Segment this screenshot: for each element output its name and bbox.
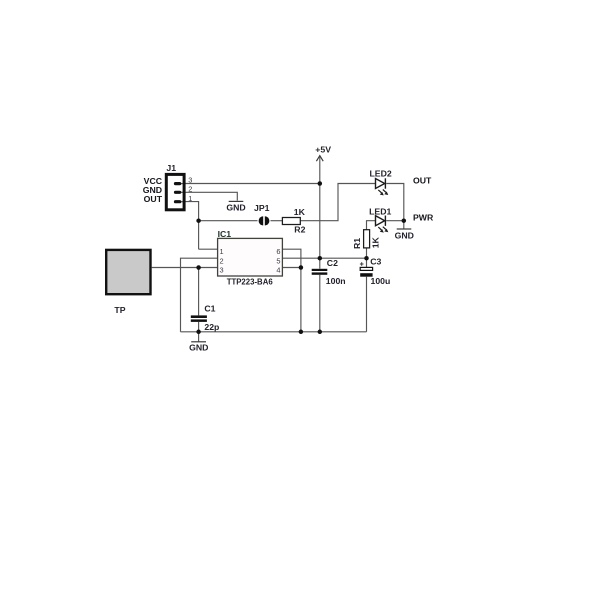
capacitor C2 bbox=[312, 269, 328, 275]
touch pad TP bbox=[106, 250, 150, 294]
IC IC1 TTP223-BA6 bbox=[218, 238, 283, 276]
junction node: OUT column / JP1 row bbox=[196, 218, 201, 223]
wire: IC pin5 row to C3 node bbox=[282, 257, 366, 259]
wire VCC: J1 pin3 to +5V rail bbox=[181, 183, 320, 185]
ground symbol at PWR node bbox=[403, 221, 405, 229]
wire: C3 bottom to ground rail bbox=[366, 277, 368, 332]
wire: J1 pin1 down to OUT node bbox=[181, 202, 199, 250]
wire: +5V rail below C2 to ground rail bbox=[319, 275, 321, 332]
diode LED2 bbox=[376, 178, 389, 195]
wire: node F to C3 top bbox=[366, 258, 368, 267]
wire: JP1 to R2 bbox=[271, 220, 283, 222]
junction node: TP / pin3 bbox=[196, 265, 201, 270]
svg-text:GND: GND bbox=[226, 203, 245, 213]
wire: LED1 cathode to PWR node bbox=[386, 220, 404, 222]
svg-text:LED2: LED2 bbox=[370, 168, 392, 178]
svg-text:TTP223-BA6: TTP223-BA6 bbox=[227, 276, 273, 286]
junction node: C1 / rail bbox=[196, 330, 201, 335]
capacitor C3 (polarized) bbox=[360, 267, 372, 270]
wire: R2 to LED2 anode bbox=[300, 184, 375, 221]
resistor R2 bbox=[282, 218, 300, 225]
wire: TP node down to C1 bbox=[198, 268, 200, 316]
svg-text:22p: 22p bbox=[204, 322, 219, 332]
svg-text:3: 3 bbox=[220, 266, 224, 275]
wire: LED1 anode to R1 top bbox=[367, 221, 376, 230]
svg-text:OUT: OUT bbox=[144, 194, 163, 204]
svg-text:J1: J1 bbox=[166, 163, 176, 173]
svg-text:IC1: IC1 bbox=[218, 229, 232, 239]
wire: TP to IC pin3 bbox=[152, 267, 218, 269]
junction node: pin6 drop / rail bbox=[299, 330, 304, 335]
svg-text:TP: TP bbox=[114, 305, 125, 315]
svg-text:1K: 1K bbox=[371, 236, 381, 248]
wire: IC pin6 over and down bbox=[282, 249, 301, 332]
svg-text:5: 5 bbox=[276, 256, 280, 265]
svg-text:3: 3 bbox=[188, 175, 192, 184]
svg-text:2: 2 bbox=[220, 256, 224, 265]
svg-text:JP1: JP1 bbox=[254, 203, 270, 213]
svg-text:OUT: OUT bbox=[413, 175, 432, 185]
svg-text:C3: C3 bbox=[370, 257, 381, 267]
svg-text:GND: GND bbox=[395, 231, 414, 241]
svg-text:GND: GND bbox=[189, 343, 208, 353]
wire: OUT column to IC pin1 bbox=[199, 248, 218, 250]
svg-text:R2: R2 bbox=[294, 224, 305, 234]
plus mark for C3 bbox=[360, 262, 364, 266]
junction node: +5V / VCC bbox=[318, 181, 323, 186]
wire: IC pin4 stub bbox=[282, 267, 301, 269]
wire: bottom ground rail bbox=[181, 331, 367, 333]
svg-text:1: 1 bbox=[220, 247, 224, 256]
svg-text:C1: C1 bbox=[204, 304, 215, 314]
svg-text:2: 2 bbox=[188, 185, 192, 194]
junction node: +5V col / rail bbox=[318, 330, 323, 335]
svg-text:PWR: PWR bbox=[413, 213, 434, 223]
ground symbol at bottom rail bbox=[198, 332, 200, 342]
power +5V symbol bbox=[316, 156, 323, 162]
wire: LED2 cathode to PWR node bbox=[386, 184, 404, 221]
wire: IC pin2 left and down to rail bbox=[181, 258, 218, 332]
svg-text:100n: 100n bbox=[326, 276, 346, 286]
svg-text:6: 6 bbox=[276, 247, 280, 256]
wire: J1 pin2 to GND drop bbox=[181, 192, 237, 200]
junction node: pin4 / pin6 bbox=[299, 265, 304, 270]
resistor R1 bbox=[364, 230, 370, 248]
svg-text:+5V: +5V bbox=[315, 144, 331, 154]
wire: C1 bottom to rail bbox=[198, 322, 200, 332]
jumper JP1 bbox=[259, 216, 270, 225]
svg-text:4: 4 bbox=[276, 266, 280, 275]
junction node: +5V / pin5 row bbox=[318, 256, 323, 261]
svg-text:R1: R1 bbox=[352, 238, 362, 249]
svg-text:1: 1 bbox=[188, 194, 192, 203]
connector J1 bbox=[166, 174, 185, 209]
junction node: PWR bbox=[402, 218, 407, 223]
ground symbol at J1 pin2 bbox=[229, 200, 244, 202]
svg-text:1K: 1K bbox=[294, 207, 306, 217]
capacitor C1 bbox=[191, 315, 207, 322]
svg-text:C2: C2 bbox=[327, 258, 338, 268]
diode LED1 bbox=[376, 216, 389, 233]
wire: +5V rail vertical bbox=[319, 156, 321, 269]
wire: OUT node to JP1 bbox=[199, 220, 258, 222]
junction node: R1 / C3 bbox=[364, 256, 369, 261]
svg-text:100u: 100u bbox=[371, 276, 391, 286]
wire: R1 bottom to node F bbox=[366, 248, 368, 258]
svg-text:LED1: LED1 bbox=[369, 206, 391, 216]
